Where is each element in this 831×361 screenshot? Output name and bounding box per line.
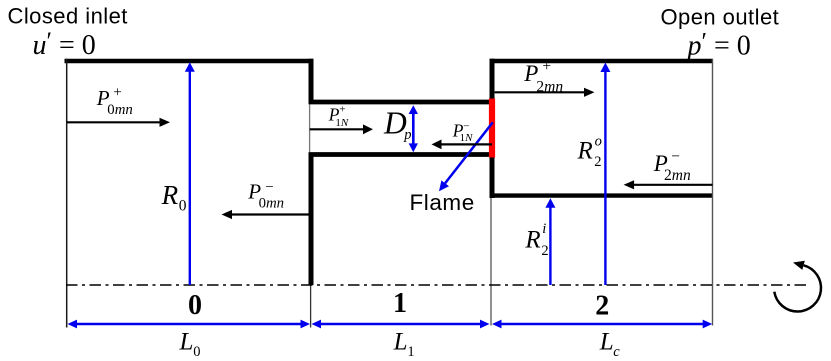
arrow P0mn+ — [67, 118, 170, 127]
arrow P0mn- — [222, 210, 312, 219]
dimension arrow R0 — [185, 62, 195, 285]
wall: section 2 left, lower — [490, 157, 495, 199]
svg-text:L0: L0 — [179, 329, 201, 360]
wall: section 2 left, upper — [490, 59, 495, 100]
svg-text:P+1N: P+1N — [328, 103, 349, 129]
svg-text:P−2mn: P−2mn — [653, 148, 691, 184]
flame sheet (red) at section 1/2 interface — [489, 99, 495, 158]
svg-text:u′ = 0: u′ = 0 — [33, 28, 96, 61]
svg-text:Ri2: Ri2 — [524, 221, 548, 259]
svg-text:Open outlet: Open outlet — [661, 5, 780, 30]
dimension arrow L0 — [68, 320, 311, 329]
flame pointer arrow — [439, 122, 493, 191]
svg-text:Ro2: Ro2 — [577, 133, 602, 170]
svg-text:Lc: Lc — [599, 329, 621, 360]
svg-text:Dp: Dp — [383, 106, 412, 143]
node: open outlet line (section 2 right) — [712, 59, 714, 326]
svg-text:1: 1 — [393, 288, 407, 319]
wall: section 2 top — [490, 59, 713, 64]
svg-text:R0: R0 — [161, 180, 187, 214]
arrow P2mn+ — [495, 88, 595, 97]
arrow P2mn- — [624, 180, 713, 189]
svg-text:Closed inlet: Closed inlet — [8, 3, 128, 28]
svg-text:2: 2 — [595, 291, 609, 322]
node: interface line between section 0 and 1 — [309, 104, 311, 152]
wall: section 2 bottom inner — [490, 193, 713, 197]
dimension arrow Dp (duct diameter) — [409, 105, 418, 152]
wall: section 0 left (closed inlet) — [66, 59, 68, 328]
svg-text:Flame: Flame — [410, 190, 475, 215]
svg-text:p′ = 0: p′ = 0 — [686, 29, 751, 62]
rotation (swirl) arrow — [774, 261, 821, 312]
centerline (axis of symmetry, dash-dot) — [66, 284, 806, 286]
svg-text:0: 0 — [188, 290, 202, 321]
dimension arrow R2o — [600, 63, 610, 286]
dimension arrow R2i — [545, 198, 555, 285]
wall: middle duct top — [309, 100, 493, 105]
svg-text:P−1N: P−1N — [452, 120, 473, 144]
svg-text:P+0mn: P+0mn — [96, 85, 133, 119]
arrow P1N+ — [310, 124, 373, 134]
node: tick below step wall — [310, 285, 312, 328]
wall: step between section 0 and 1, lower — [309, 153, 314, 286]
dimension arrow Lc — [492, 320, 712, 329]
wall: middle duct bottom — [309, 152, 493, 157]
dimension arrow L1 — [312, 320, 490, 329]
node: tick below flame interface — [490, 198, 492, 326]
arrow P1N- — [432, 140, 493, 150]
wall: step between section 0 and 1, upper — [309, 59, 314, 104]
svg-text:P−0mn: P−0mn — [247, 180, 284, 212]
svg-text:P+2mn: P+2mn — [523, 58, 563, 96]
wall: section 0 top — [65, 59, 314, 64]
svg-text:L1: L1 — [393, 329, 415, 360]
